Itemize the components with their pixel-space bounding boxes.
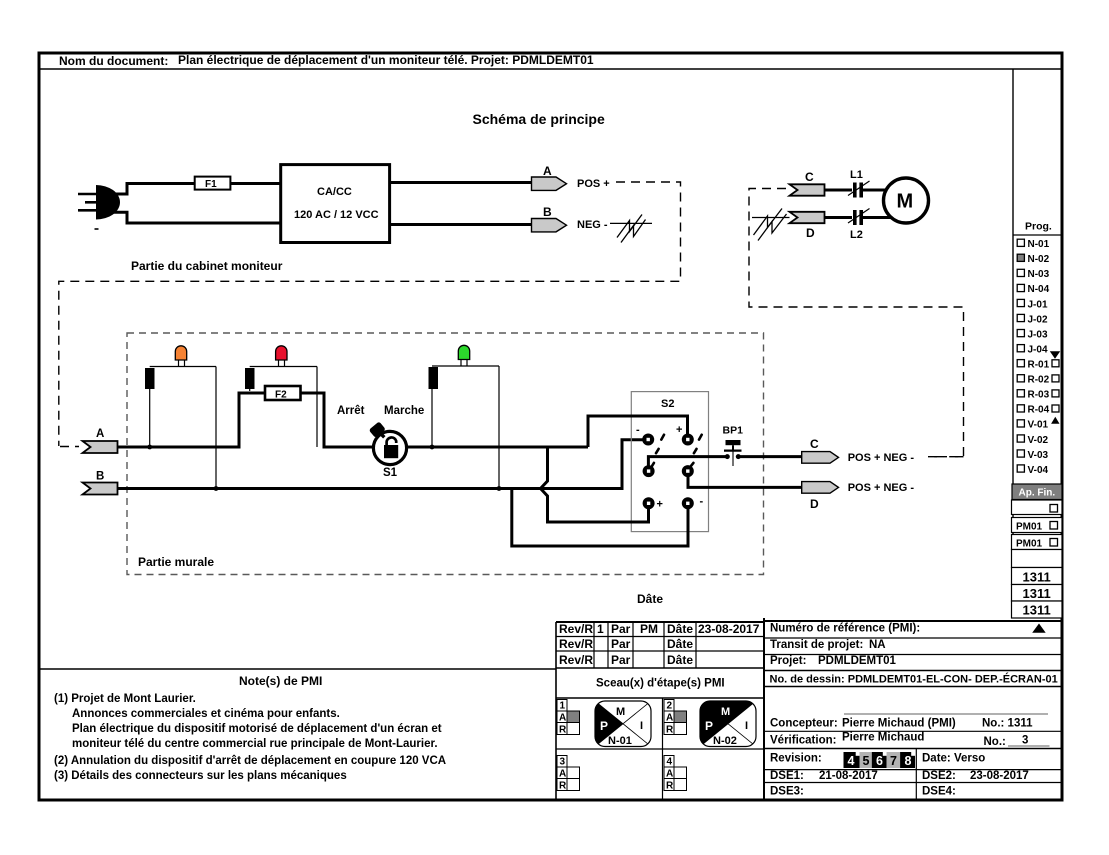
svg-text:6: 6 (876, 754, 883, 768)
svg-text:P: P (600, 719, 608, 733)
svg-text:BP1: BP1 (723, 425, 744, 437)
svg-text:N-02: N-02 (713, 735, 737, 747)
svg-text:3: 3 (1022, 735, 1028, 747)
svg-text:Partie du cabinet moniteur: Partie du cabinet moniteur (131, 259, 283, 273)
svg-text:Dâte: Dâte (667, 653, 693, 667)
svg-text:5: 5 (863, 754, 870, 768)
svg-text:No. de dessin: PDMLDEMT01-EL-C: No. de dessin: PDMLDEMT01-EL-CON- DEP.-É… (770, 673, 1058, 686)
svg-text:No.:: No.: (984, 736, 1006, 748)
svg-text:NEG -: NEG - (577, 219, 608, 231)
svg-text:Vérification:: Vérification: (770, 735, 836, 747)
svg-text:B: B (543, 205, 552, 219)
svg-text:J-04: J-04 (1028, 344, 1048, 355)
svg-text:7: 7 (890, 754, 897, 768)
svg-text:J-03: J-03 (1028, 329, 1048, 340)
svg-text:3: 3 (560, 757, 566, 768)
svg-text:Dâte: Dâte (667, 637, 693, 651)
svg-text:Note(s) de PMI: Note(s) de PMI (239, 674, 322, 688)
svg-text:Concepteur:: Concepteur: (770, 718, 838, 730)
svg-text:Dâte: Dâte (667, 622, 693, 636)
svg-text:-: - (700, 496, 704, 508)
svg-text:A: A (96, 428, 104, 440)
svg-text:L2: L2 (850, 229, 863, 241)
svg-text:N-01: N-01 (608, 735, 632, 747)
svg-text:Marche: Marche (384, 405, 424, 417)
svg-text:A: A (559, 769, 566, 780)
svg-text:No.: 1311: No.: 1311 (982, 718, 1033, 730)
svg-text:Projet:: Projet: (770, 655, 806, 667)
svg-text:D: D (810, 497, 819, 511)
svg-text:PDMLDEMT01: PDMLDEMT01 (818, 655, 897, 667)
svg-text:J-02: J-02 (1028, 314, 1048, 325)
svg-text:F2: F2 (275, 390, 287, 401)
svg-text:2: 2 (667, 701, 673, 712)
svg-text:R: R (666, 725, 674, 736)
svg-text:1311: 1311 (1023, 603, 1051, 618)
svg-text:(3) Détails des connecteurs su: (3) Détails des connecteurs sur les plan… (54, 770, 347, 782)
svg-text:M: M (616, 706, 625, 718)
svg-text:A: A (543, 164, 552, 178)
svg-text:V-01: V-01 (1028, 420, 1049, 431)
svg-text:B: B (96, 471, 104, 483)
svg-text:Dâte: Dâte (637, 592, 663, 606)
svg-text:4: 4 (848, 754, 855, 768)
svg-text:Revision:: Revision: (770, 753, 822, 765)
svg-text:Pierre Michaud: Pierre Michaud (842, 732, 924, 744)
svg-text:(1) Projet de Mont Laurier.: (1) Projet de Mont Laurier. (54, 693, 196, 705)
svg-text:1: 1 (560, 701, 566, 712)
svg-text:4: 4 (667, 757, 673, 768)
svg-text:N-03: N-03 (1028, 269, 1050, 280)
svg-text:23-08-2017: 23-08-2017 (698, 622, 760, 636)
svg-text:I: I (745, 720, 748, 732)
svg-text:1: 1 (597, 622, 604, 636)
svg-text:Rev/R: Rev/R (559, 622, 593, 636)
svg-text:Par: Par (611, 653, 631, 667)
svg-text:(2) Annulation du dispositif: (2) Annulation du dispositif d'arrêt de … (54, 755, 446, 767)
svg-text:1311: 1311 (1023, 570, 1051, 585)
svg-text:PM01: PM01 (1016, 539, 1043, 550)
svg-text:C: C (805, 170, 814, 184)
svg-text:DSE2:: DSE2: (922, 770, 956, 782)
svg-text:P: P (705, 719, 713, 733)
svg-text:Numéro de référence (PMI):: Numéro de référence (PMI): (770, 623, 920, 635)
svg-text:Sceau(x) d'étape(s) PMI: Sceau(x) d'étape(s) PMI (596, 678, 725, 690)
svg-text:S2: S2 (661, 398, 674, 410)
svg-text:Rev/R: Rev/R (559, 637, 593, 651)
svg-text:DSE3:: DSE3: (770, 786, 804, 798)
svg-text:NA: NA (869, 639, 886, 651)
svg-text:M: M (721, 706, 730, 718)
svg-text:PM01: PM01 (1016, 522, 1043, 533)
svg-text:C: C (810, 437, 819, 451)
svg-text:L1: L1 (850, 169, 863, 181)
svg-text:M: M (897, 191, 914, 213)
svg-text:A: A (559, 713, 566, 724)
svg-text:Partie murale: Partie murale (138, 555, 214, 569)
svg-text:Schéma de principe: Schéma de principe (473, 111, 605, 127)
svg-text:R-04: R-04 (1028, 405, 1050, 416)
svg-text:V-02: V-02 (1028, 435, 1049, 446)
svg-text:Rev/R: Rev/R (559, 653, 593, 667)
svg-text:POS + NEG -: POS + NEG - (848, 482, 915, 494)
svg-text:R-01: R-01 (1028, 360, 1050, 371)
svg-text:I: I (640, 720, 643, 732)
svg-text:A: A (666, 769, 673, 780)
svg-text:PM: PM (640, 622, 658, 636)
svg-text:N-01: N-01 (1028, 239, 1050, 250)
svg-text:N-02: N-02 (1028, 254, 1050, 265)
svg-text:Arrêt: Arrêt (337, 405, 365, 417)
svg-text:F1: F1 (205, 179, 217, 190)
svg-text:Transit de projet:: Transit de projet: (770, 639, 863, 651)
svg-text:R: R (666, 781, 674, 792)
svg-text:+: + (657, 499, 663, 511)
svg-text:Date: Verso: Date: Verso (922, 753, 985, 765)
svg-text:1311: 1311 (1023, 586, 1051, 601)
svg-text:R-02: R-02 (1028, 375, 1050, 386)
svg-text:R: R (559, 781, 567, 792)
svg-text:V-03: V-03 (1028, 450, 1049, 461)
svg-text:-: - (636, 424, 640, 436)
svg-text:S1: S1 (383, 467, 398, 479)
svg-text:DSE1:: DSE1: (770, 770, 804, 782)
svg-text:Prog.: Prog. (1025, 221, 1052, 233)
svg-text:N-04: N-04 (1028, 284, 1050, 295)
svg-text:8: 8 (905, 754, 912, 768)
svg-text:V-04: V-04 (1028, 465, 1049, 476)
svg-text:120 AC / 12 VCC: 120 AC / 12 VCC (294, 209, 379, 221)
svg-text:J-01: J-01 (1028, 299, 1048, 310)
svg-text:Ap. Fin.: Ap. Fin. (1019, 488, 1056, 499)
svg-text:Pierre Michaud (PMI): Pierre Michaud (PMI) (842, 718, 956, 730)
svg-text:D: D (806, 226, 815, 240)
svg-text:+: + (676, 424, 682, 436)
svg-text:Annonces commerciales et ciném: Annonces commerciales et cinéma pour enf… (72, 708, 340, 720)
svg-text:moniteur télé du centre commer: moniteur télé du centre commercial rue p… (72, 738, 438, 750)
svg-text:Par: Par (611, 622, 631, 636)
svg-text:A: A (666, 713, 673, 724)
svg-text:21-08-2017: 21-08-2017 (819, 770, 878, 782)
svg-text:CA/CC: CA/CC (317, 186, 352, 198)
svg-text:R: R (559, 725, 567, 736)
svg-text:Nom du document:: Nom du document: (59, 54, 168, 68)
svg-text:DSE4:: DSE4: (922, 786, 956, 798)
svg-text:23-08-2017: 23-08-2017 (970, 770, 1029, 782)
svg-text:POS +: POS + (577, 178, 610, 190)
svg-text:R-03: R-03 (1028, 390, 1050, 401)
svg-text:Par: Par (611, 637, 631, 651)
svg-text:POS + NEG -: POS + NEG - (848, 452, 915, 464)
svg-text:Plan électrique du dispositif: Plan électrique du dispositif motorisé d… (72, 723, 442, 735)
svg-text:Plan électrique de déplacement: Plan électrique de déplacement d'un moni… (178, 53, 594, 67)
